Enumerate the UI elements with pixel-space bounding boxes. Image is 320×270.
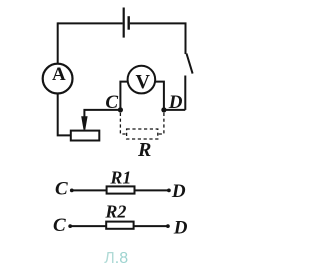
resistor R dashed lead from D xyxy=(158,113,164,134)
resistor R dashed lead from C xyxy=(120,113,126,134)
switch K blade xyxy=(187,54,193,74)
svg-text:D: D xyxy=(173,218,188,239)
R2 left wire xyxy=(70,225,106,227)
resistor R1 body xyxy=(107,186,135,193)
svg-text:D: D xyxy=(168,92,183,113)
svg-text:R: R xyxy=(137,139,151,161)
wire node D to switch xyxy=(164,109,185,111)
svg-text:V: V xyxy=(136,71,151,93)
R2 right wire xyxy=(134,225,168,227)
node D junction dot xyxy=(161,107,166,112)
wire left vertical (corner to ammeter) xyxy=(57,22,59,63)
voltmeter right lead to node D xyxy=(155,82,164,110)
wire ammeter to rheostat xyxy=(58,94,70,136)
svg-text:C: C xyxy=(105,92,118,113)
resistor R2 body xyxy=(106,222,133,229)
battery GB long plate xyxy=(123,8,125,38)
battery GB short plate xyxy=(127,16,129,30)
rheostat body xyxy=(71,131,100,141)
R2 right terminal dot xyxy=(166,224,170,228)
node C junction dot xyxy=(118,107,123,112)
svg-text:C: C xyxy=(55,179,68,200)
voltmeter V xyxy=(128,66,156,94)
R1 left wire xyxy=(72,189,106,191)
rheostat wiper arrow xyxy=(81,116,87,129)
ammeter A xyxy=(43,64,73,94)
R1 left terminal dot xyxy=(70,189,74,193)
svg-text:Л.8: Л.8 xyxy=(104,250,128,267)
svg-text:A: A xyxy=(52,64,66,85)
R1 right terminal dot xyxy=(167,189,171,193)
wire top-left (battery to left corner) xyxy=(58,22,123,24)
R1 right wire xyxy=(135,189,169,191)
svg-text:D: D xyxy=(171,181,186,202)
resistor R dashed body xyxy=(127,129,158,139)
wire node C to rheostat wiper xyxy=(84,110,119,122)
R2 left terminal dot xyxy=(68,224,72,228)
svg-text:C: C xyxy=(53,215,66,236)
wire top-right (battery to switch corner) xyxy=(130,23,186,54)
voltmeter left lead to node C xyxy=(120,82,128,110)
switch K lower lead xyxy=(184,76,186,110)
svg-text:R2: R2 xyxy=(104,202,126,222)
svg-text:R1: R1 xyxy=(109,168,131,188)
